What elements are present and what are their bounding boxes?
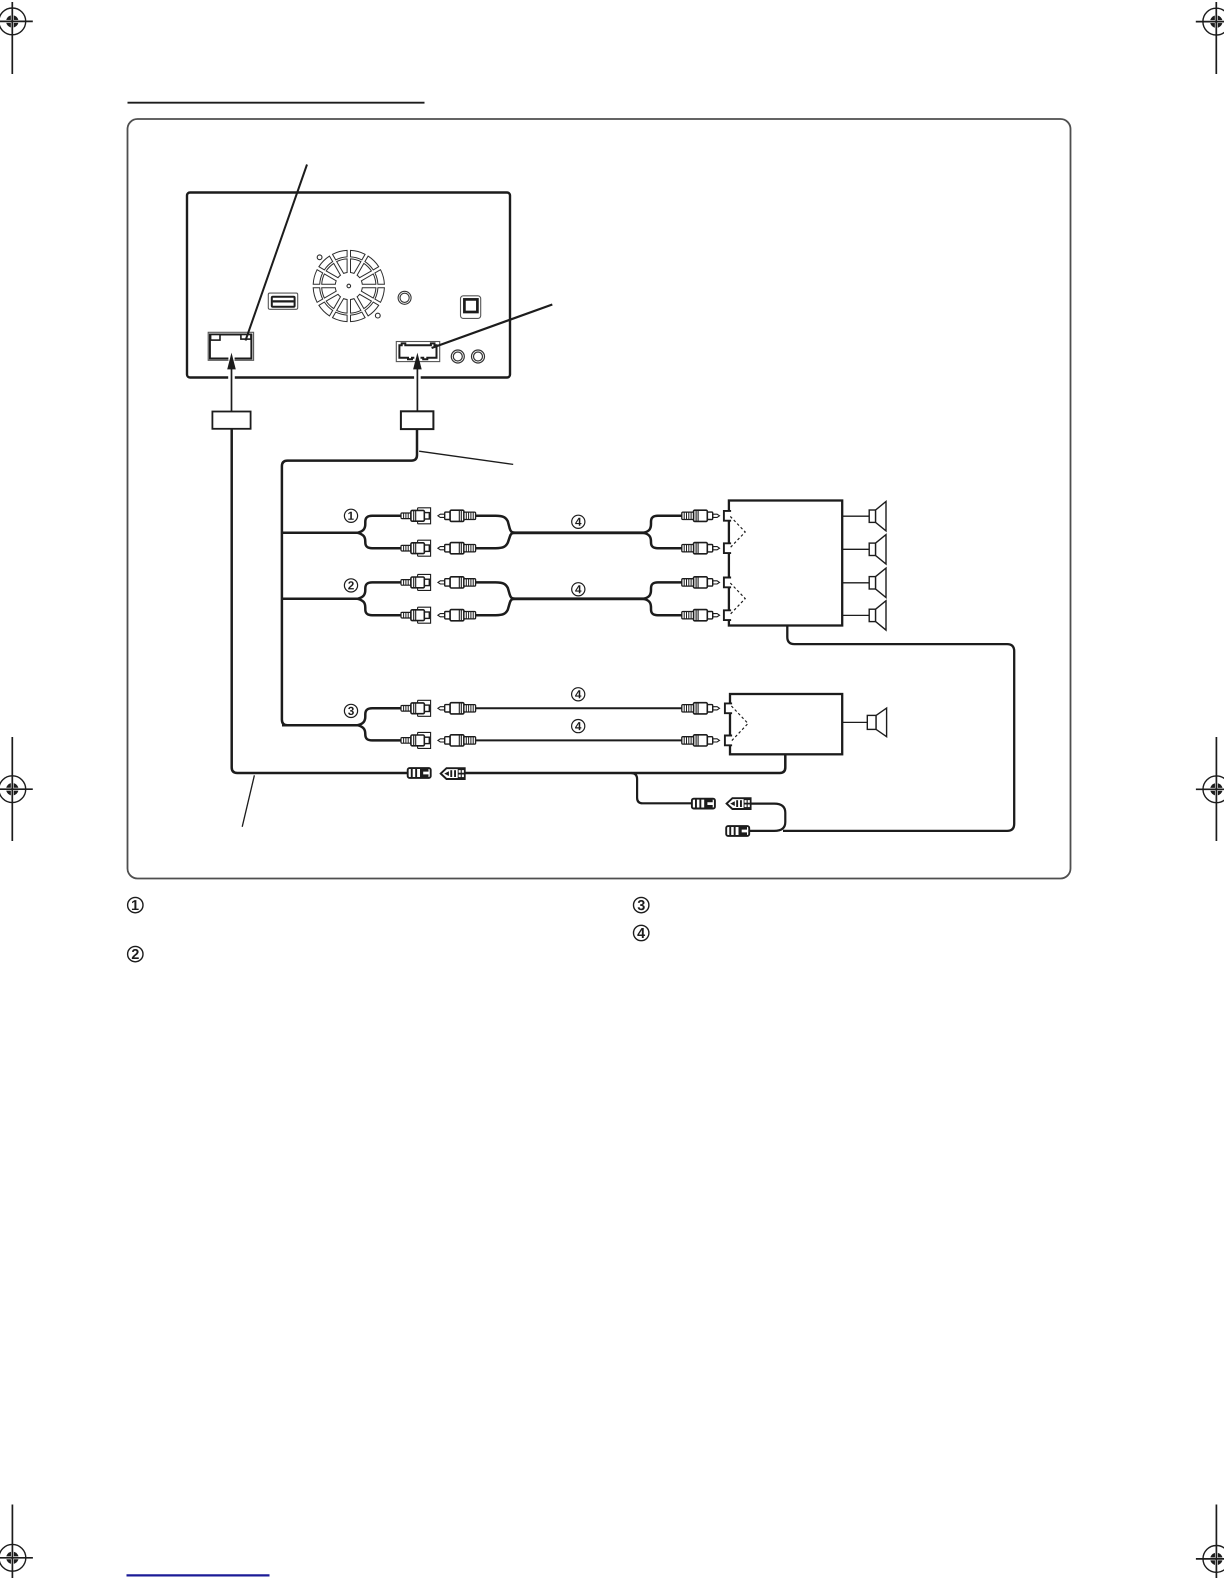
head unit rear panel (187, 193, 510, 378)
optical connector (461, 296, 481, 319)
bullet terminal female (power lead) (441, 768, 465, 779)
footer blue rule (127, 1574, 270, 1576)
speaker lead (842, 515, 869, 517)
registration mark top-right (1196, 2, 1224, 74)
wire: remote turn-on branch (632, 773, 692, 803)
RCA plug (cable side) (438, 610, 476, 621)
callout line to aux connector (432, 305, 553, 349)
main harness plug (401, 411, 434, 429)
bullet terminal male (remote) (692, 799, 715, 809)
RCA pair 2: rear output (282, 574, 720, 623)
section title underline (128, 102, 425, 104)
RCA jack (head unit side) (401, 607, 431, 623)
RCA plug (amp side) (682, 610, 720, 621)
speaker (869, 502, 886, 531)
RCA plug (amp side) (682, 703, 720, 714)
RCA jack (head unit side) (401, 700, 431, 716)
label 1 (344, 509, 357, 522)
registration mark top-left (0, 2, 33, 74)
wire: RCA bus from main harness plug (282, 429, 417, 725)
amp input jack (724, 511, 731, 521)
4-channel amplifier (729, 501, 842, 626)
panel screw hole left (451, 350, 464, 363)
bullet terminal male (power lead) (408, 768, 431, 778)
label 4a (572, 515, 585, 528)
amp input jack (724, 578, 731, 588)
wire: 4ch amp remote/power (783, 626, 1014, 831)
legend item 4 (634, 925, 649, 940)
registration mark bottom-left (0, 1505, 33, 1579)
RCA plug (amp side) (682, 577, 720, 588)
RCA plug (cable side) (438, 543, 476, 554)
RCA plug (amp side) (682, 510, 720, 521)
label 4d (572, 720, 585, 733)
registration mark bottom-right (1196, 1505, 1224, 1579)
label 4c (572, 688, 585, 701)
fan screw top-left (317, 255, 322, 260)
speaker lead (842, 548, 869, 550)
RCA plug (cable side) (438, 735, 476, 746)
RCA plug (cable side) (438, 510, 476, 521)
RCA plug (cable side) (438, 703, 476, 714)
rear aux ring (398, 291, 411, 304)
legend item 3 (634, 897, 649, 912)
wire: lead to mono amp power (465, 754, 785, 773)
wire: battery/ground lead from power plug (232, 429, 408, 773)
panel screw hole right (472, 350, 485, 363)
RCA jack (head unit side) (401, 574, 431, 590)
speaker (869, 601, 886, 630)
speaker lead (842, 582, 869, 584)
fan screw bottom-right (375, 313, 380, 318)
amp input jack (724, 610, 731, 620)
amp channel chevron 2 (730, 583, 745, 614)
subwoofer lead (842, 721, 867, 723)
amp input jack (725, 736, 732, 746)
subwoofer speaker (867, 708, 886, 737)
fan grille (313, 250, 384, 321)
registration mark mid-right (1196, 737, 1224, 841)
speaker lead (842, 614, 869, 616)
RCA plug (cable side) (438, 577, 476, 588)
power harness plug (212, 412, 250, 429)
diagram frame (128, 119, 1071, 879)
speaker (869, 568, 886, 597)
registration mark mid-left (0, 737, 33, 841)
bullet terminal female (remote) (727, 798, 751, 809)
bullet terminal (amp remote in) (726, 826, 749, 836)
mono amp chevron (731, 706, 748, 741)
RCA plug (amp side) (682, 735, 720, 746)
RCA plug (amp side) (682, 543, 720, 554)
power connector socket (left) (208, 332, 253, 360)
RCA jack (head unit side) (401, 732, 431, 748)
label 2 (344, 579, 357, 592)
amp input jack (724, 543, 731, 553)
RCA pair 3: subwoofer output (282, 700, 720, 748)
arrow into right socket (413, 353, 422, 412)
RCA pair 1: front output (282, 508, 720, 556)
camera/aux connector socket (right) (396, 342, 439, 362)
arrow into left socket (227, 353, 236, 412)
legend item 1 (128, 897, 143, 912)
label 4b (572, 583, 585, 596)
callout line to power connector (246, 165, 308, 341)
label 3 (344, 704, 357, 717)
speaker (869, 535, 886, 564)
amp channel chevron 1 (730, 516, 745, 547)
callout line bottom-left lead (242, 775, 254, 827)
RCA jack (head unit side) (401, 508, 431, 524)
USB port (268, 293, 297, 309)
RCA jack (head unit side) (401, 540, 431, 556)
wire: mono amp ground from bottom (784, 753, 786, 755)
amp input jack (725, 703, 732, 713)
callout line to harness cable (419, 451, 513, 464)
mono amplifier (730, 694, 842, 754)
wire: remote lead U-turn (749, 804, 786, 831)
legend item 2 (128, 946, 143, 961)
